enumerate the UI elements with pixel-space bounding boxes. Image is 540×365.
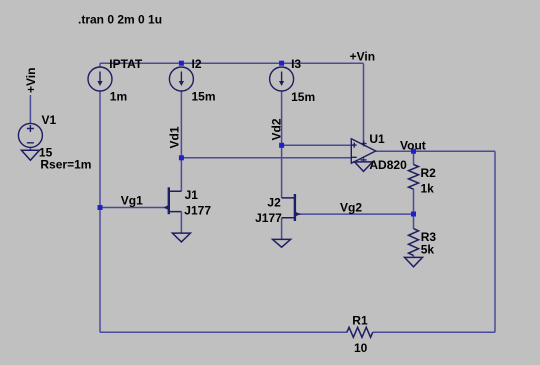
- junction Vg1: [98, 205, 103, 210]
- transistor J1: [163, 187, 181, 214]
- wire R3 top lead: [413, 214, 415, 229]
- svg-text:10: 10: [354, 341, 368, 355]
- junction Vout: [411, 149, 416, 154]
- svg-text:Vg2: Vg2: [340, 200, 362, 214]
- ground J2: [273, 239, 291, 247]
- wire Vd2 horizontal: [282, 144, 352, 146]
- current source I2: [169, 67, 193, 91]
- wire J1 source to ground: [180, 212, 182, 234]
- svg-text:1m: 1m: [110, 89, 127, 103]
- svg-text:V1: V1: [42, 113, 57, 127]
- svg-text:.tran 0 2m 0 1u: .tran 0 2m 0 1u: [78, 13, 162, 27]
- transistor J2: [282, 194, 301, 221]
- svg-text:U1: U1: [369, 132, 385, 146]
- ground U1: [355, 162, 373, 172]
- wire Vg1: [100, 207, 165, 209]
- wire +Vin drop to op-amp V+: [363, 64, 365, 145]
- junction I2 top: [179, 61, 184, 66]
- wire V1 top stub: [29, 95, 31, 124]
- ground R3: [405, 257, 423, 266]
- ground V1: [21, 150, 39, 160]
- wire I3 bottom to J2 drain: [281, 91, 283, 198]
- current source I3: [270, 67, 294, 91]
- wire R3 bottom lead: [413, 255, 415, 257]
- resistor R3: [409, 229, 419, 256]
- svg-text:1k: 1k: [421, 181, 435, 195]
- svg-text:R2: R2: [421, 166, 437, 180]
- svg-text:J2: J2: [267, 195, 281, 209]
- svg-text:AD820: AD820: [369, 158, 407, 172]
- wire Vg2: [301, 213, 414, 215]
- wire I2 bottom to J1 drain: [180, 91, 182, 191]
- wire top bus: [100, 62, 364, 64]
- op-amp U1: [351, 139, 375, 163]
- svg-text:Rser=1m: Rser=1m: [40, 158, 91, 172]
- wire Vout rail: [376, 150, 495, 152]
- resistor R2: [409, 165, 419, 190]
- svg-text:5k: 5k: [421, 243, 435, 257]
- wire IPTAT top stub: [99, 63, 101, 67]
- svg-text:15m: 15m: [291, 90, 315, 104]
- junction Vd1: [179, 155, 184, 160]
- wire R2 bottom lead: [413, 189, 415, 214]
- wire V1 bottom stub: [29, 147, 31, 150]
- junction Vd2: [279, 143, 284, 148]
- svg-text:IPTAT: IPTAT: [109, 57, 143, 71]
- wire R2 top lead: [413, 151, 415, 164]
- junction Vg2 node: [411, 212, 416, 217]
- svg-text:15m: 15m: [192, 89, 216, 103]
- svg-text:Vout: Vout: [400, 138, 426, 152]
- wire right riser: [494, 151, 496, 332]
- svg-text:+Vin: +Vin: [350, 50, 375, 64]
- resistor R1: [347, 327, 373, 337]
- svg-text:J1: J1: [185, 188, 199, 202]
- wire J2 source to ground: [281, 218, 283, 240]
- wire bottom bus: [100, 331, 495, 333]
- svg-text:J177: J177: [184, 204, 211, 218]
- voltage source V1: [18, 123, 42, 147]
- junction I3 top: [279, 61, 284, 66]
- svg-text:Vd2: Vd2: [270, 118, 284, 140]
- svg-text:+Vin: +Vin: [24, 68, 38, 93]
- svg-text:I2: I2: [192, 57, 202, 71]
- ground J1: [172, 233, 190, 242]
- wire IPTAT bottom / left column: [99, 91, 101, 332]
- svg-text:Vd1: Vd1: [167, 126, 181, 148]
- svg-text:Vg1: Vg1: [121, 193, 143, 207]
- svg-text:R1: R1: [352, 313, 368, 327]
- current source IPTAT: [88, 67, 112, 91]
- svg-text:J177: J177: [255, 211, 282, 225]
- svg-text:I3: I3: [291, 57, 301, 71]
- wire op-amp V- stub: [363, 157, 365, 162]
- wire Vd1 horizontal: [181, 157, 351, 159]
